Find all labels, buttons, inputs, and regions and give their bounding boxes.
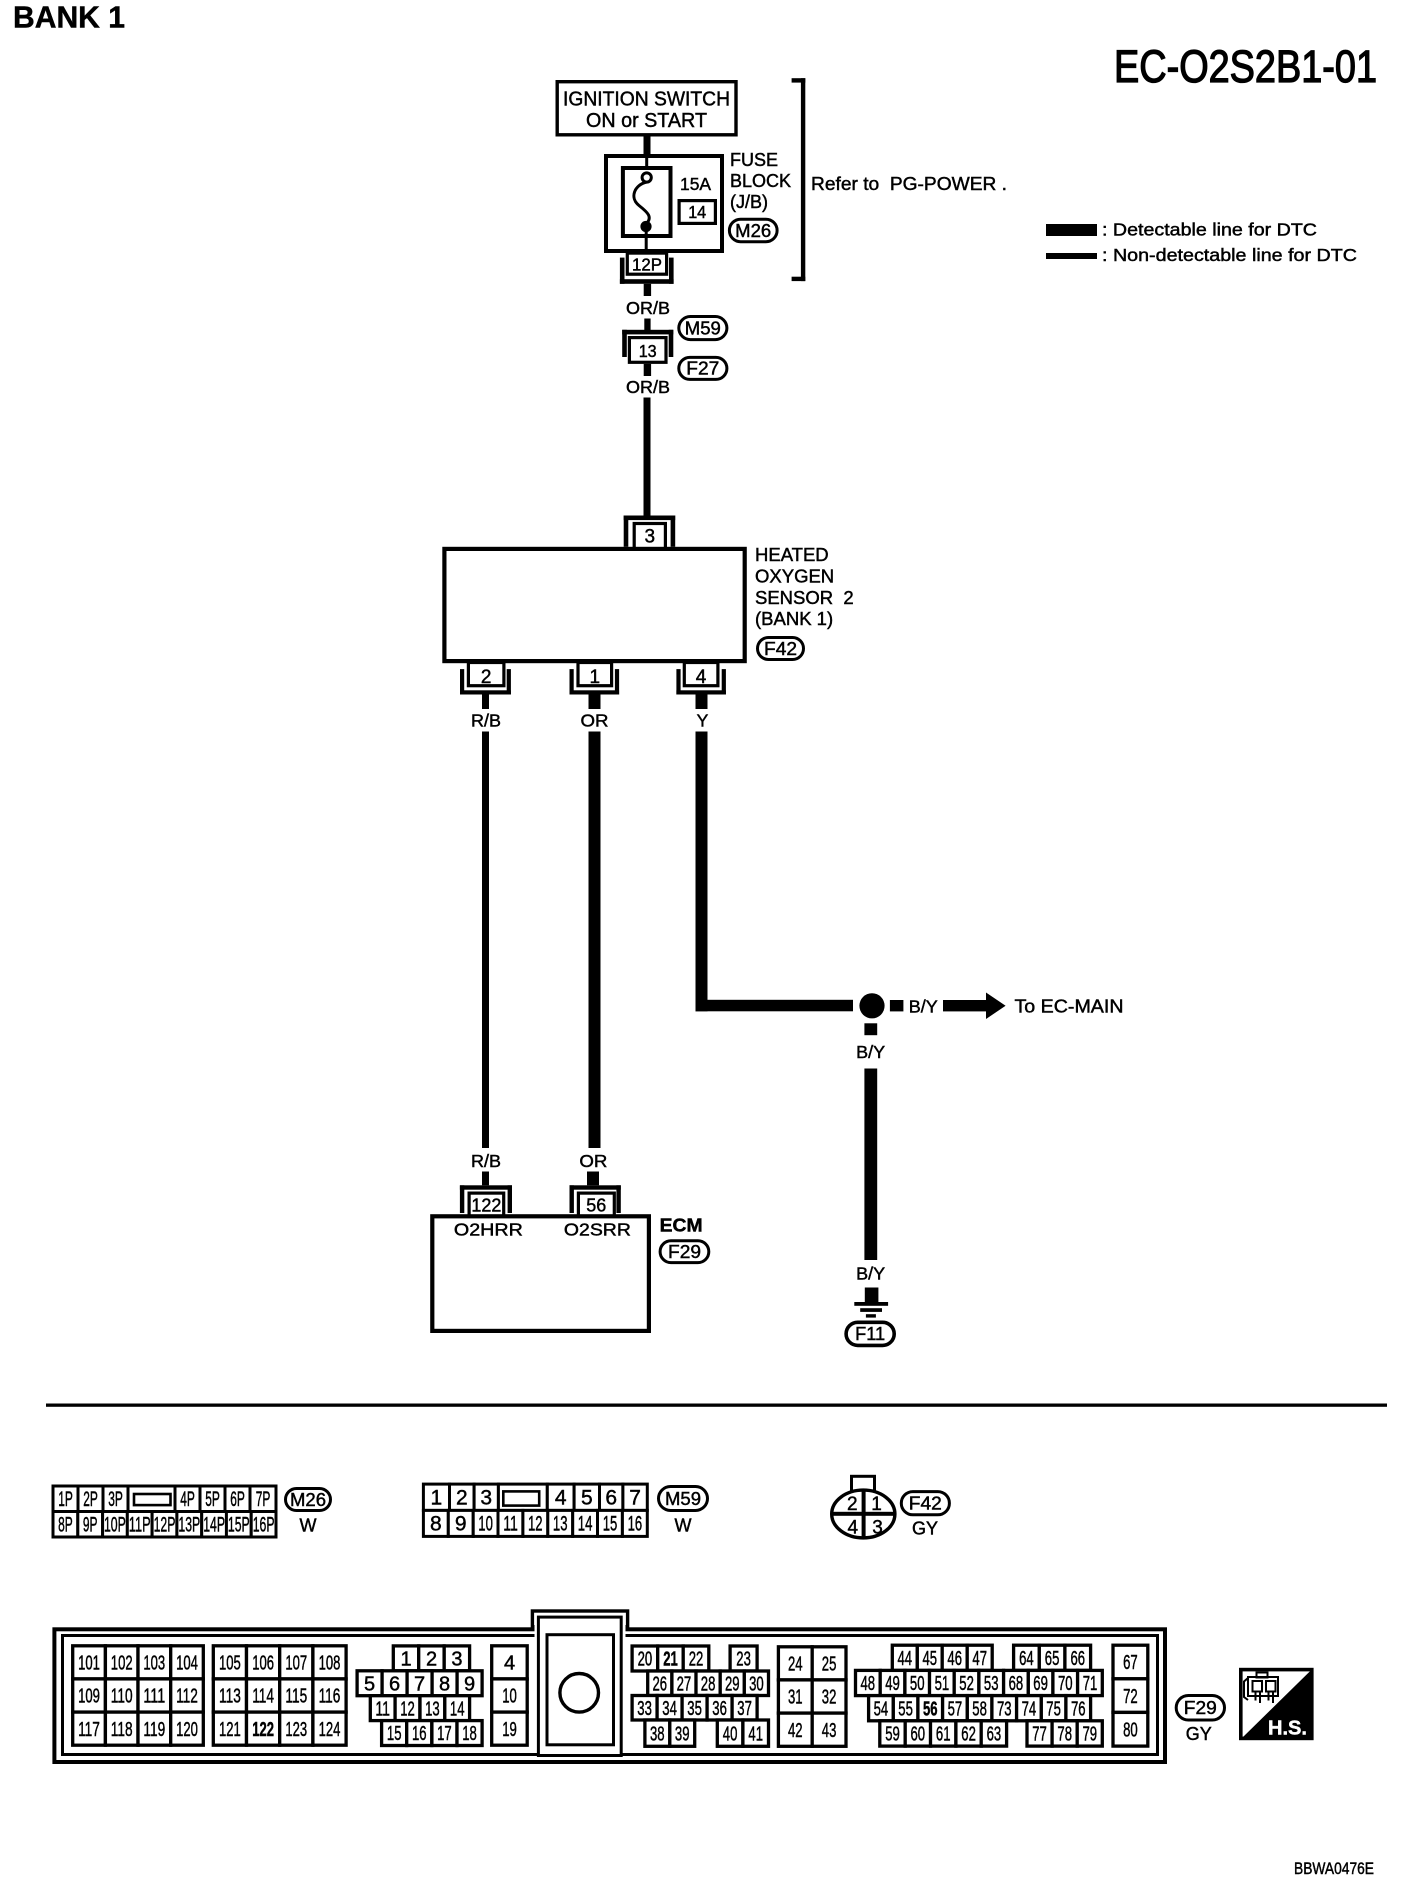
svg-text:W: W xyxy=(675,1516,692,1536)
svg-text:118: 118 xyxy=(111,1719,133,1741)
note To EC-MAIN xyxy=(1015,997,1124,1017)
divider line xyxy=(46,1404,1387,1407)
connector 2 xyxy=(460,663,511,695)
wire B/Y dash below junction xyxy=(864,1023,877,1035)
bracket for refer note xyxy=(792,78,806,281)
svg-text:62: 62 xyxy=(961,1724,976,1746)
connector id F42 oval bottom xyxy=(901,1492,949,1539)
svg-text:12P: 12P xyxy=(154,1514,176,1537)
svg-text:9: 9 xyxy=(464,1674,475,1696)
svg-text:12: 12 xyxy=(400,1698,415,1720)
svg-text:76: 76 xyxy=(1071,1698,1086,1720)
svg-text:4: 4 xyxy=(555,1487,567,1510)
svg-text:74: 74 xyxy=(1022,1698,1037,1720)
svg-text:Y: Y xyxy=(697,711,709,731)
svg-text:H.S.: H.S. xyxy=(1268,1718,1307,1740)
connector id F27 oval xyxy=(679,357,727,379)
svg-text:61: 61 xyxy=(936,1724,951,1746)
svg-text:ECM: ECM xyxy=(660,1215,703,1236)
svg-text:12P: 12P xyxy=(632,255,662,275)
svg-text:72: 72 xyxy=(1123,1686,1138,1708)
ECM pins 67 72 80 column xyxy=(1113,1645,1148,1746)
fuse block outline xyxy=(606,156,722,251)
wire label OR/B xyxy=(626,298,670,318)
svg-text:3: 3 xyxy=(480,1487,492,1510)
svg-text:37: 37 xyxy=(737,1698,752,1720)
wire label OR at ECM xyxy=(579,1151,607,1171)
svg-text:46: 46 xyxy=(947,1648,962,1670)
svg-text:BANK 1: BANK 1 xyxy=(13,0,125,35)
svg-text:OR/B: OR/B xyxy=(626,377,670,397)
svg-text:73: 73 xyxy=(997,1698,1012,1720)
svg-text:3: 3 xyxy=(451,1649,462,1671)
svg-text:36: 36 xyxy=(712,1698,727,1720)
svg-text:3: 3 xyxy=(645,527,656,548)
svg-text:122: 122 xyxy=(252,1719,274,1741)
svg-text:77: 77 xyxy=(1032,1724,1047,1746)
svg-text:8P: 8P xyxy=(58,1514,73,1537)
svg-text:34: 34 xyxy=(662,1698,677,1720)
connector id M59 oval bottom xyxy=(659,1487,708,1536)
svg-text:OR/B: OR/B xyxy=(626,298,670,318)
svg-text:57: 57 xyxy=(948,1698,963,1720)
arrow to EC-MAIN xyxy=(943,993,1006,1020)
svg-text:O2SRR: O2SRR xyxy=(564,1220,631,1240)
svg-text:10: 10 xyxy=(478,1513,493,1536)
svg-text:6P: 6P xyxy=(230,1488,245,1511)
svg-text:: Non-detectable line for DTC: : Non-detectable line for DTC xyxy=(1102,245,1357,265)
svg-text:FUSE: FUSE xyxy=(730,150,778,170)
svg-text:75: 75 xyxy=(1046,1698,1061,1720)
svg-text:32: 32 xyxy=(822,1687,837,1709)
svg-text:2: 2 xyxy=(426,1649,437,1671)
ECM label xyxy=(660,1215,703,1236)
svg-text:102: 102 xyxy=(111,1653,133,1675)
connector view M59 grid xyxy=(423,1484,647,1536)
svg-text:16: 16 xyxy=(628,1513,643,1536)
svg-text:59: 59 xyxy=(885,1724,900,1746)
svg-text:8: 8 xyxy=(430,1513,442,1536)
svg-text:7: 7 xyxy=(629,1487,641,1510)
svg-text:50: 50 xyxy=(910,1673,925,1695)
svg-text:110: 110 xyxy=(111,1686,133,1708)
svg-text:49: 49 xyxy=(885,1673,900,1695)
svg-text:R/B: R/B xyxy=(471,711,501,731)
ECM pins 101-124 left grids xyxy=(73,1646,346,1745)
svg-text:14P: 14P xyxy=(203,1514,225,1537)
svg-text:B/Y: B/Y xyxy=(856,1042,885,1062)
svg-text:60: 60 xyxy=(911,1724,926,1746)
svg-text:1: 1 xyxy=(400,1649,411,1671)
svg-text:F29: F29 xyxy=(1184,1698,1217,1718)
wire label B/Y at ground xyxy=(856,1264,885,1284)
connector id F42 oval xyxy=(758,638,804,660)
wire R/B long run xyxy=(482,732,489,1149)
svg-text:2: 2 xyxy=(456,1487,468,1510)
svg-text:2P: 2P xyxy=(83,1488,98,1511)
svg-text:Refer to PG-POWER .: Refer to PG-POWER . xyxy=(811,174,1007,194)
wire B/Y vertical run to ground xyxy=(864,1069,877,1261)
svg-text:40: 40 xyxy=(723,1723,738,1745)
svg-text:67: 67 xyxy=(1123,1652,1138,1674)
ECM pins 24-43 group xyxy=(778,1647,846,1746)
svg-text:26: 26 xyxy=(653,1674,668,1696)
svg-text:105: 105 xyxy=(219,1653,241,1675)
svg-text:103: 103 xyxy=(143,1653,165,1675)
junction dot B/Y xyxy=(859,993,884,1018)
svg-text:120: 120 xyxy=(176,1719,198,1741)
svg-text:M59: M59 xyxy=(665,1489,701,1509)
connector id M59 oval xyxy=(679,317,727,340)
svg-text:22: 22 xyxy=(689,1649,704,1671)
wire OR/B stub below 13 xyxy=(644,364,651,376)
svg-text:10P: 10P xyxy=(104,1514,126,1537)
svg-text:56: 56 xyxy=(923,1698,938,1720)
page code EC-O2S2B1-01 xyxy=(1114,41,1377,92)
wire OR/B between label and connector 13 xyxy=(644,319,650,332)
svg-text:7: 7 xyxy=(414,1674,425,1696)
svg-text:13: 13 xyxy=(553,1513,568,1536)
svg-text:64: 64 xyxy=(1019,1648,1034,1670)
ignition switch box xyxy=(557,82,736,135)
svg-text:17: 17 xyxy=(437,1723,452,1745)
svg-text:SENSOR 2: SENSOR 2 xyxy=(755,587,854,608)
sensor labels xyxy=(755,544,854,629)
svg-text:GY: GY xyxy=(1186,1724,1212,1744)
svg-text:41: 41 xyxy=(748,1723,763,1745)
svg-text:21: 21 xyxy=(663,1649,678,1671)
svg-text:HEATED: HEATED xyxy=(755,544,829,565)
fuse 15A symbol xyxy=(623,158,671,249)
svg-text:11: 11 xyxy=(375,1698,390,1720)
svg-text:F42: F42 xyxy=(909,1494,942,1514)
svg-text:58: 58 xyxy=(972,1698,987,1720)
wire label OR xyxy=(581,711,609,731)
wire label R/B xyxy=(471,711,501,731)
wire Y to B/Y horizontal run xyxy=(696,1000,854,1012)
svg-text:104: 104 xyxy=(176,1653,198,1675)
svg-text:55: 55 xyxy=(898,1698,913,1720)
connector 4 xyxy=(676,663,726,695)
svg-text:35: 35 xyxy=(687,1698,702,1720)
svg-text:BBWA0476E: BBWA0476E xyxy=(1294,1860,1374,1878)
connector view M26 grid xyxy=(53,1486,276,1537)
svg-text:M26: M26 xyxy=(290,1490,326,1510)
svg-text:B/Y: B/Y xyxy=(909,997,938,1017)
svg-text:23: 23 xyxy=(736,1649,751,1671)
svg-text:3: 3 xyxy=(872,1518,883,1539)
wire Y vertical run xyxy=(696,732,708,1012)
svg-text:48: 48 xyxy=(861,1673,876,1695)
svg-text:1: 1 xyxy=(431,1487,443,1510)
svg-text:EC-O2S2B1-01: EC-O2S2B1-01 xyxy=(1114,41,1377,92)
svg-text:(BANK 1): (BANK 1) xyxy=(755,608,833,629)
legend non-detectable line xyxy=(1046,245,1357,265)
svg-text:O2HRR: O2HRR xyxy=(454,1220,523,1240)
H.S. mark xyxy=(1241,1670,1312,1740)
connector 1 xyxy=(570,663,620,695)
svg-text:16P: 16P xyxy=(253,1514,275,1537)
wire R/B stub below connector 2 xyxy=(482,695,489,710)
svg-text:80: 80 xyxy=(1123,1720,1138,1742)
svg-text:43: 43 xyxy=(822,1720,837,1742)
wire label B/Y below junction xyxy=(856,1042,885,1062)
svg-text:19: 19 xyxy=(502,1719,517,1741)
fuse rating 15A xyxy=(680,174,711,194)
svg-text:15P: 15P xyxy=(228,1514,250,1537)
svg-text:113: 113 xyxy=(219,1686,241,1708)
svg-text:14: 14 xyxy=(450,1698,465,1720)
svg-text:(J/B): (J/B) xyxy=(730,192,768,212)
ECM terminal label O2SRR xyxy=(564,1220,631,1240)
svg-text:BLOCK: BLOCK xyxy=(730,171,791,191)
svg-text:18: 18 xyxy=(462,1723,477,1745)
svg-text:1P: 1P xyxy=(58,1488,73,1511)
svg-text:101: 101 xyxy=(78,1653,100,1675)
svg-text:3P: 3P xyxy=(108,1488,123,1511)
svg-text:6: 6 xyxy=(389,1674,400,1696)
svg-text:69: 69 xyxy=(1033,1673,1048,1695)
wire OR/B long run to sensor xyxy=(644,398,651,516)
svg-text:39: 39 xyxy=(675,1723,690,1745)
svg-text:124: 124 xyxy=(319,1719,341,1741)
svg-text:4: 4 xyxy=(696,667,707,688)
svg-text:14: 14 xyxy=(688,202,706,222)
ECM pins 1-19 middle group xyxy=(357,1646,527,1746)
wire OR long run xyxy=(589,732,601,1149)
ground symbol xyxy=(854,1302,888,1318)
connector id M26 oval xyxy=(729,219,777,242)
svg-text:W: W xyxy=(300,1516,317,1536)
note Refer to PG-POWER xyxy=(811,174,1007,194)
svg-text:51: 51 xyxy=(935,1673,950,1695)
connector view F42 round xyxy=(832,1476,895,1538)
svg-text:116: 116 xyxy=(319,1686,341,1708)
svg-text:108: 108 xyxy=(319,1653,341,1675)
svg-text:GY: GY xyxy=(912,1519,938,1539)
svg-text:30: 30 xyxy=(749,1674,764,1696)
svg-text:B/Y: B/Y xyxy=(856,1264,885,1284)
svg-text:15: 15 xyxy=(387,1723,402,1745)
svg-text:79: 79 xyxy=(1083,1724,1098,1746)
svg-text:123: 123 xyxy=(285,1719,307,1741)
svg-text:5: 5 xyxy=(581,1487,593,1510)
svg-text:78: 78 xyxy=(1057,1724,1072,1746)
fuse block labels xyxy=(730,150,791,212)
svg-text:F27: F27 xyxy=(686,359,719,379)
svg-text:109: 109 xyxy=(78,1686,100,1708)
svg-text:1: 1 xyxy=(590,667,601,688)
svg-text:56: 56 xyxy=(586,1196,606,1216)
wire R/B stub above 122 xyxy=(482,1172,489,1186)
svg-text:13P: 13P xyxy=(178,1514,200,1537)
title BANK 1 xyxy=(13,0,125,35)
ECM pins 44-79 group xyxy=(856,1645,1103,1746)
connector 13 xyxy=(622,330,673,363)
svg-text:15A: 15A xyxy=(680,174,711,194)
svg-text:IGNITION SWITCH: IGNITION SWITCH xyxy=(563,89,730,111)
svg-text:42: 42 xyxy=(788,1720,803,1742)
ECM connector view outline xyxy=(54,1611,1165,1762)
svg-text:28: 28 xyxy=(701,1674,716,1696)
svg-text:4: 4 xyxy=(848,1518,859,1539)
svg-text:20: 20 xyxy=(638,1649,653,1671)
wire B/Y dash right of junction xyxy=(890,1000,904,1011)
svg-text:107: 107 xyxy=(285,1653,307,1675)
svg-text:12: 12 xyxy=(528,1513,543,1536)
heated oxygen sensor box xyxy=(444,549,744,661)
svg-text:24: 24 xyxy=(788,1654,803,1676)
svg-text:5: 5 xyxy=(364,1674,375,1696)
wire label Y xyxy=(697,711,709,731)
legend detectable line xyxy=(1046,220,1317,240)
svg-text:70: 70 xyxy=(1058,1673,1073,1695)
svg-text:29: 29 xyxy=(725,1674,740,1696)
svg-text:112: 112 xyxy=(176,1686,198,1708)
svg-text:121: 121 xyxy=(219,1719,241,1741)
svg-text:8: 8 xyxy=(439,1674,450,1696)
svg-text:47: 47 xyxy=(972,1648,987,1670)
svg-text:4: 4 xyxy=(504,1653,515,1675)
svg-text:F29: F29 xyxy=(668,1242,701,1262)
connector id M26 oval bottom xyxy=(286,1489,331,1536)
svg-text:F11: F11 xyxy=(855,1324,885,1344)
svg-text:2: 2 xyxy=(481,667,492,688)
svg-text:52: 52 xyxy=(959,1673,974,1695)
svg-text:44: 44 xyxy=(898,1648,913,1670)
svg-text:114: 114 xyxy=(252,1686,274,1708)
svg-text:11: 11 xyxy=(503,1513,518,1536)
svg-text:111: 111 xyxy=(143,1686,165,1708)
svg-text:33: 33 xyxy=(637,1698,652,1720)
connector id F29 oval xyxy=(660,1241,709,1263)
svg-text:119: 119 xyxy=(143,1719,165,1741)
svg-text:2: 2 xyxy=(847,1494,858,1515)
svg-text:4P: 4P xyxy=(180,1488,195,1511)
wire label OR/B 2 xyxy=(626,377,670,397)
svg-text:1: 1 xyxy=(871,1494,882,1515)
wire OR stub below connector 1 xyxy=(589,695,601,710)
svg-text:11P: 11P xyxy=(129,1514,151,1537)
svg-text:13: 13 xyxy=(425,1698,440,1720)
svg-text:45: 45 xyxy=(923,1648,938,1670)
fuse number 14 box xyxy=(679,201,715,224)
svg-text:To EC-MAIN: To EC-MAIN xyxy=(1015,997,1124,1017)
wire OR stub above 56 xyxy=(587,1172,599,1186)
svg-text:16: 16 xyxy=(412,1723,427,1745)
svg-text:7P: 7P xyxy=(256,1488,271,1511)
svg-text:15: 15 xyxy=(603,1513,618,1536)
svg-text:65: 65 xyxy=(1045,1648,1060,1670)
svg-text:106: 106 xyxy=(252,1653,274,1675)
svg-text:63: 63 xyxy=(987,1724,1002,1746)
wire label R/B at ECM xyxy=(471,1151,501,1171)
connector 12P xyxy=(620,253,674,284)
svg-text:M26: M26 xyxy=(735,221,771,241)
svg-text:27: 27 xyxy=(677,1674,692,1696)
wire label B/Y right of junction xyxy=(909,997,938,1017)
svg-text:54: 54 xyxy=(874,1698,889,1720)
connector 56 xyxy=(570,1185,621,1216)
svg-text:31: 31 xyxy=(788,1687,803,1709)
svg-text:66: 66 xyxy=(1071,1648,1086,1670)
svg-text:9: 9 xyxy=(455,1513,467,1536)
svg-text:25: 25 xyxy=(822,1654,837,1676)
wire B/Y stub to ground xyxy=(865,1288,879,1303)
svg-text:M59: M59 xyxy=(685,318,721,338)
svg-text:OR: OR xyxy=(579,1151,607,1171)
svg-text:53: 53 xyxy=(984,1673,999,1695)
svg-text:5P: 5P xyxy=(205,1488,220,1511)
svg-text:14: 14 xyxy=(578,1513,593,1536)
svg-text:71: 71 xyxy=(1083,1673,1098,1695)
svg-text:9P: 9P xyxy=(83,1514,98,1537)
wire Y stub below connector 4 xyxy=(696,695,708,710)
svg-text:OR: OR xyxy=(581,711,609,731)
connector 122 xyxy=(460,1185,512,1216)
svg-text:10: 10 xyxy=(502,1686,517,1708)
ECM pins 20-41 group xyxy=(632,1646,768,1746)
svg-text:122: 122 xyxy=(471,1196,501,1216)
ECM terminal label O2HRR xyxy=(454,1220,523,1240)
figure code BBWA0476E xyxy=(1294,1860,1374,1878)
svg-text:: Detectable line for DTC: : Detectable line for DTC xyxy=(1102,220,1317,240)
svg-text:68: 68 xyxy=(1009,1673,1024,1695)
svg-text:115: 115 xyxy=(285,1686,307,1708)
wire ignition switch to fuse block xyxy=(644,137,651,156)
svg-text:13: 13 xyxy=(639,341,657,361)
svg-text:F42: F42 xyxy=(764,639,797,659)
svg-text:R/B: R/B xyxy=(471,1151,501,1171)
connector id F29 oval bottom xyxy=(1176,1696,1224,1745)
ECM box xyxy=(432,1216,649,1331)
svg-text:38: 38 xyxy=(650,1723,665,1745)
svg-text:ON or START: ON or START xyxy=(586,110,707,132)
svg-text:117: 117 xyxy=(78,1719,100,1741)
svg-text:6: 6 xyxy=(605,1487,617,1510)
wire OR/B stub below 12P xyxy=(644,284,651,296)
svg-text:OXYGEN: OXYGEN xyxy=(755,565,834,586)
connector 3 xyxy=(624,516,676,550)
connector id F11 oval xyxy=(846,1322,894,1345)
